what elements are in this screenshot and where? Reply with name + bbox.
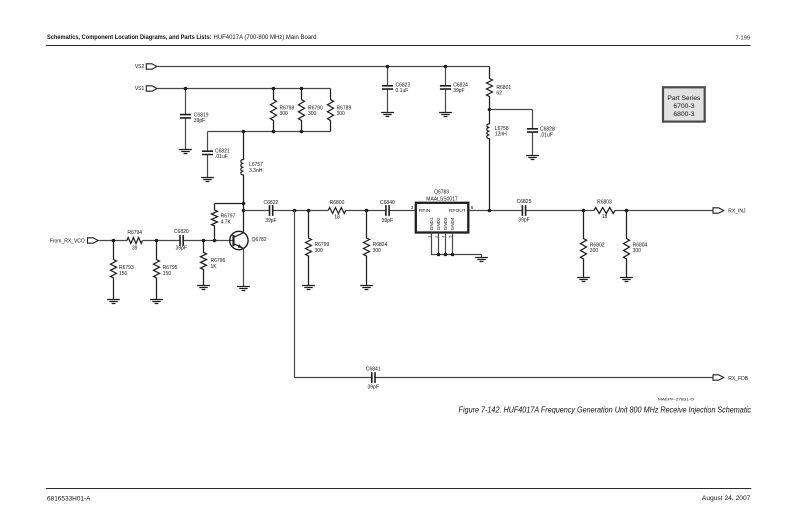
- svg-text:300: 300: [373, 248, 382, 254]
- node R6798 bottom: [272, 130, 276, 134]
- resistor R6793: [111, 241, 117, 300]
- svg-text:6: 6: [471, 205, 474, 210]
- ground under R6793: [107, 300, 120, 304]
- resistor R6796: [201, 241, 207, 286]
- wire VS1 rail: [157, 88, 331, 90]
- svg-text:.01uF: .01uF: [215, 154, 228, 160]
- svg-text:6700-3: 6700-3: [673, 103, 694, 110]
- ground under C6819: [179, 150, 192, 154]
- node bias rail-L6757: [242, 130, 246, 134]
- svg-text:39pF: 39pF: [453, 88, 464, 94]
- svg-text:R6800: R6800: [330, 200, 345, 206]
- node R6790 bottom: [300, 130, 304, 134]
- node output-R6824: [365, 209, 369, 213]
- svg-text:RFOUT: RFOUT: [449, 208, 466, 214]
- svg-text:4: 4: [441, 236, 445, 238]
- capacitor C6841: [372, 372, 375, 383]
- node base-R6797: [213, 239, 217, 243]
- svg-text:Part Series: Part Series: [667, 95, 701, 102]
- capacitor C6820: [180, 235, 183, 246]
- inductor L6757: [241, 132, 244, 233]
- svg-text:C6825: C6825: [517, 199, 532, 205]
- svg-text:6800-3: 6800-3: [673, 111, 694, 118]
- svg-text:RX_FDB: RX_FDB: [728, 376, 748, 382]
- resistor R6797: [212, 204, 244, 241]
- svg-text:3.3nH: 3.3nH: [249, 168, 263, 174]
- node GND2 bus: [437, 253, 441, 257]
- node C6820-R6796: [202, 239, 206, 243]
- node output-R6802: [582, 209, 586, 213]
- ground under R6804: [620, 278, 633, 282]
- ground under R6796: [197, 286, 210, 290]
- node GND3 bus: [444, 253, 448, 257]
- capacitor C6823: [387, 67, 389, 113]
- svg-text:C6840: C6840: [380, 200, 395, 206]
- capacitor C6825: [522, 205, 525, 216]
- resistor R6798: [271, 89, 277, 132]
- node collector-R6797: [242, 202, 246, 206]
- svg-text:C6822: C6822: [264, 200, 279, 206]
- svg-text:VS2: VS2: [135, 64, 145, 70]
- svg-text:1K: 1K: [211, 264, 218, 270]
- svg-text:C6841: C6841: [366, 367, 381, 373]
- wire to C6828: [490, 109, 533, 111]
- svg-text:GND3: GND3: [443, 217, 448, 230]
- wire input line: [98, 240, 233, 242]
- svg-text:From_RX_VCO: From_RX_VCO: [50, 239, 85, 245]
- ground under C6821: [201, 178, 214, 182]
- svg-text:39pF: 39pF: [518, 217, 529, 223]
- ground under C6823: [381, 113, 394, 117]
- svg-text:39pF: 39pF: [367, 385, 378, 391]
- svg-text:Figure 7-142. HUF4017A Frequen: Figure 7-142. HUF4017A Frequency Generat…: [459, 405, 752, 414]
- transistor Q6782: [230, 231, 248, 249]
- svg-text:MAEPF-27831-O: MAEPF-27831-O: [658, 398, 694, 402]
- svg-text:12nH: 12nH: [495, 132, 507, 138]
- port From_RX_VCO: [88, 238, 99, 243]
- port VS1: [146, 86, 157, 91]
- svg-text:300: 300: [337, 111, 346, 117]
- part series note box: [663, 87, 705, 121]
- capacitor C6824: [445, 67, 447, 113]
- node output-R6804: [625, 209, 629, 213]
- svg-text:39: 39: [132, 245, 138, 251]
- svg-text:3: 3: [411, 205, 414, 210]
- svg-text:300: 300: [315, 248, 324, 254]
- svg-text:Schematics, Component Location: Schematics, Component Location Diagrams,…: [47, 34, 317, 41]
- svg-text:39pF: 39pF: [176, 246, 187, 252]
- node output-R6799: [307, 209, 311, 213]
- resistor R6794: [127, 238, 143, 244]
- wire VS2 rail: [157, 66, 490, 68]
- node GND4 bus: [451, 253, 455, 257]
- svg-text:7-199: 7-199: [736, 36, 751, 42]
- ground under C6828: [526, 156, 539, 160]
- svg-text:R6794: R6794: [127, 230, 142, 236]
- svg-text:300: 300: [308, 111, 317, 117]
- resistor R6789: [328, 89, 334, 132]
- node R6798 top: [272, 87, 276, 91]
- capacitor C6840: [386, 205, 389, 216]
- svg-text:0.1uF: 0.1uF: [396, 88, 409, 94]
- capacitor C6822: [270, 205, 273, 216]
- svg-text:5: 5: [448, 236, 452, 238]
- ground under R6795: [150, 300, 163, 304]
- ground under R6799: [302, 286, 315, 290]
- resistor R6802: [581, 211, 587, 278]
- ground under R6824: [360, 286, 373, 290]
- svg-text:4.7K: 4.7K: [221, 220, 232, 226]
- capacitor C6821: [207, 132, 209, 178]
- svg-text:GND2: GND2: [436, 217, 441, 230]
- svg-text:MAALSS0017: MAALSS0017: [426, 197, 458, 203]
- svg-text:1: 1: [427, 236, 431, 238]
- svg-text:.01uF: .01uF: [540, 133, 553, 139]
- svg-text:Q6783: Q6783: [434, 190, 449, 196]
- svg-text:2: 2: [434, 236, 438, 238]
- svg-text:39pF: 39pF: [382, 218, 393, 224]
- svg-text:62: 62: [496, 91, 502, 97]
- svg-text:Q6782: Q6782: [252, 237, 267, 243]
- ground under IC: [475, 258, 488, 262]
- node VS1-C6819: [184, 87, 188, 91]
- resistor R6800: [328, 208, 346, 214]
- node R6801-L6758: [488, 108, 492, 112]
- svg-text:300: 300: [590, 248, 599, 254]
- ground under Q6782 emitter: [237, 287, 250, 291]
- node VS2-C6823: [386, 65, 390, 69]
- resistor R6790: [299, 89, 305, 132]
- svg-text:150: 150: [119, 271, 128, 277]
- ground under C6824: [439, 113, 452, 117]
- ground under R6802: [577, 278, 590, 282]
- svg-text:39pF: 39pF: [265, 218, 276, 224]
- node collector-output: [242, 209, 246, 213]
- port RX_INJ: [713, 208, 724, 213]
- resistor R6801: [487, 67, 493, 110]
- svg-text:300: 300: [280, 111, 289, 117]
- wire bias bottom rail: [208, 131, 331, 133]
- node input-R6793: [112, 239, 116, 243]
- wire output line: [244, 210, 714, 212]
- node R6794-R6795: [155, 239, 159, 243]
- svg-text:150: 150: [163, 271, 172, 277]
- svg-text:GND4: GND4: [450, 217, 455, 230]
- svg-text:C6820: C6820: [174, 229, 189, 235]
- resistor R6804: [624, 211, 630, 278]
- svg-text:39pF: 39pF: [194, 118, 205, 124]
- svg-text:300: 300: [633, 248, 642, 254]
- resistor R6824: [364, 211, 370, 286]
- port VS2: [146, 64, 157, 69]
- port RX_FDB: [713, 375, 724, 380]
- node R6790 top: [300, 87, 304, 91]
- resistor R6799: [306, 211, 312, 286]
- capacitor C6819: [185, 89, 187, 150]
- resistor R6803: [594, 208, 615, 214]
- svg-text:6816533H01-A: 6816533H01-A: [47, 495, 91, 502]
- wire IC ground pins: [432, 233, 482, 258]
- resistor R6795: [154, 241, 160, 300]
- node RX_FDB tap: [293, 209, 297, 213]
- inductor L6758: [487, 110, 490, 211]
- node RFOUT-L6758: [488, 209, 492, 213]
- wire RX_FDB line: [295, 211, 714, 378]
- svg-text:VS1: VS1: [135, 86, 145, 92]
- footer rule: [46, 488, 751, 490]
- capacitor C6828: [532, 110, 534, 156]
- svg-text:18: 18: [334, 214, 340, 220]
- svg-text:RFIN: RFIN: [419, 208, 431, 214]
- svg-text:18: 18: [602, 214, 608, 220]
- wire emitter: [243, 248, 245, 286]
- svg-text:August 24, 2007: August 24, 2007: [702, 495, 751, 502]
- svg-text:GND1: GND1: [429, 217, 434, 230]
- header rule: [46, 45, 751, 47]
- node VS2-C6824: [444, 65, 448, 69]
- op-amp U Q6783 buffer MAALSS0017: [416, 203, 469, 233]
- svg-text:R6803: R6803: [597, 200, 612, 206]
- svg-text:RX_INJ: RX_INJ: [728, 209, 746, 215]
